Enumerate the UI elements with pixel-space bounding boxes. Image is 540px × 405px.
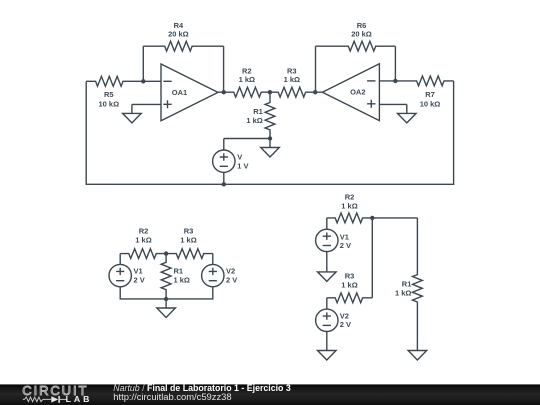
svg-text:R1: R1 bbox=[402, 279, 412, 288]
svg-text:R3: R3 bbox=[184, 227, 194, 236]
svg-text:1 kΩ: 1 kΩ bbox=[135, 236, 151, 245]
svg-text:http://circuitlab.com/c59zz38: http://circuitlab.com/c59zz38 bbox=[113, 391, 231, 402]
svg-text:V1: V1 bbox=[340, 232, 349, 241]
svg-text:R1: R1 bbox=[174, 267, 184, 276]
svg-text:2 V: 2 V bbox=[340, 320, 351, 329]
svg-text:20 kΩ: 20 kΩ bbox=[351, 30, 372, 39]
svg-text:1 kΩ: 1 kΩ bbox=[174, 276, 190, 285]
svg-text:V1: V1 bbox=[134, 267, 143, 276]
svg-text:R3: R3 bbox=[345, 271, 355, 280]
svg-text:V2: V2 bbox=[226, 267, 235, 276]
svg-text:10 kΩ: 10 kΩ bbox=[98, 99, 119, 108]
svg-text:R2: R2 bbox=[139, 227, 149, 236]
svg-text:R2: R2 bbox=[345, 192, 355, 201]
svg-text:V: V bbox=[237, 153, 242, 162]
svg-text:1 kΩ: 1 kΩ bbox=[246, 116, 262, 125]
svg-text:LAB: LAB bbox=[66, 394, 93, 404]
svg-text:R7: R7 bbox=[425, 90, 435, 99]
svg-text:R5: R5 bbox=[104, 90, 114, 99]
svg-text:1 kΩ: 1 kΩ bbox=[180, 236, 196, 245]
svg-text:1 kΩ: 1 kΩ bbox=[395, 289, 411, 298]
svg-text:V2: V2 bbox=[340, 311, 349, 320]
svg-text:1 kΩ: 1 kΩ bbox=[341, 281, 357, 290]
svg-text:1 V: 1 V bbox=[237, 161, 248, 170]
svg-text:OA1: OA1 bbox=[172, 88, 187, 97]
svg-text:OA2: OA2 bbox=[350, 88, 365, 97]
svg-text:2 V: 2 V bbox=[134, 276, 145, 285]
svg-text:20 kΩ: 20 kΩ bbox=[168, 30, 189, 39]
svg-text:R1: R1 bbox=[253, 107, 263, 116]
svg-text:2 V: 2 V bbox=[226, 276, 237, 285]
svg-text:2 V: 2 V bbox=[340, 241, 351, 250]
svg-text:1 kΩ: 1 kΩ bbox=[284, 75, 300, 84]
svg-text:1 kΩ: 1 kΩ bbox=[341, 202, 357, 211]
svg-text:1 kΩ: 1 kΩ bbox=[239, 75, 255, 84]
svg-text:10 kΩ: 10 kΩ bbox=[420, 99, 441, 108]
